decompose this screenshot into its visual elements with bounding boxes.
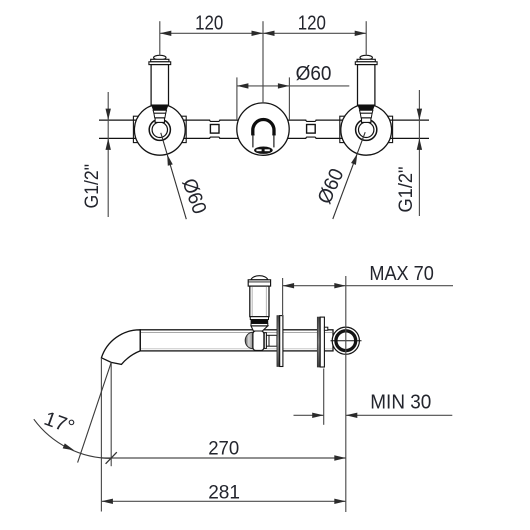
handle (side view) (251, 276, 268, 280)
connector nub (side view) (324, 327, 327, 330)
svg-text:Ø60: Ø60 (296, 63, 332, 85)
G1/2 dimension left (107, 92, 109, 217)
extension line above left handle (159, 21, 161, 55)
extension line flange face MIN (323, 369, 325, 425)
G1/2 dimension right (418, 90, 420, 216)
spout bend and outlet mouth (side view) (101, 330, 140, 365)
extension line spout outer edge (100, 358, 102, 512)
valve cartridge rings left (149, 119, 170, 140)
svg-text:120: 120 (298, 12, 326, 34)
spout outlet aerator (front view) (254, 147, 273, 154)
valve body (side view) (245, 332, 253, 348)
spout nose arch (front view) (253, 120, 274, 135)
supply fitting circle (side view) (332, 327, 359, 354)
spout tube body (side view) (140, 330, 333, 351)
handle right (front view) (360, 55, 372, 60)
wall flange 1 (side view) (277, 316, 280, 367)
svg-text:270: 270 (208, 437, 239, 459)
dimension line diameter 60 center (237, 85, 349, 87)
valve cartridge rings right (356, 119, 377, 140)
wall center line (345, 276, 347, 512)
supply pipe horizontal bar (top view) (99, 119, 429, 121)
svg-text:G1/2": G1/2" (396, 167, 417, 213)
svg-text:120: 120 (195, 12, 223, 34)
dimension line 120+120 (160, 32, 366, 34)
dimension line 281 (101, 500, 345, 502)
escutcheon right (valve rosette) (341, 104, 392, 155)
extension lines diameter 60 center (236, 77, 238, 120)
spout rosette center circle (237, 103, 289, 155)
angle reference line 17 deg (78, 362, 112, 462)
svg-text:MAX 70: MAX 70 (369, 263, 434, 285)
pipe union jog right (306, 119, 315, 122)
dimension line MAX 70 (283, 285, 453, 287)
svg-text:MIN 30: MIN 30 (370, 392, 431, 414)
pipe union jog left (210, 119, 219, 122)
escutcheon left (valve rosette) (134, 104, 185, 155)
pipe clamp square left (210, 125, 219, 134)
extension line spout tip (110, 363, 112, 466)
angle arc 17 deg (34, 419, 111, 458)
dimension line 270 (101, 457, 345, 459)
extension line above center spout (262, 21, 264, 103)
extension line flange face MAX (282, 278, 284, 316)
dimension line MIN 30 (294, 414, 324, 416)
mounting bracket right (top view) (340, 116, 393, 142)
leader diameter 60 right valve (333, 132, 365, 219)
wall flange 2 (side view) (317, 317, 320, 367)
svg-text:G1/2": G1/2" (82, 164, 103, 209)
handle left (front view) (154, 55, 166, 60)
mounting bracket left (top view) (133, 116, 186, 142)
pipe clamp square right (307, 125, 316, 134)
svg-text:281: 281 (208, 481, 240, 503)
extension line above right handle (365, 21, 367, 55)
leader diameter 60 left valve (161, 133, 187, 219)
